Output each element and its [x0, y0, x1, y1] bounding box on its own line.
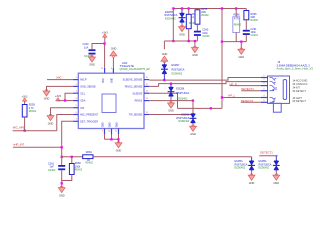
svg-text:+3V3: +3V3 — [22, 95, 29, 98]
svg-text:GND: GND — [190, 133, 196, 136]
svg-text:5# DETECT: 5# DETECT — [293, 90, 307, 93]
IC left pin stub INT — [73, 107, 78, 109]
svg-text:R0402: R0402 — [75, 169, 83, 172]
wire detect long — [93, 156, 252, 158]
wire C281 to gnd — [61, 170, 63, 184]
svg-text:GND: GND — [249, 182, 255, 185]
connector contact 3 — [270, 86, 277, 91]
ground under C281 — [61, 183, 63, 187]
IC bottom pin stub 9 — [104, 129, 106, 135]
capacitor C281 — [58, 165, 65, 167]
connector contact 2 — [270, 82, 276, 85]
junction V1 rail1 — [221, 7, 223, 9]
svg-text:ESD54: ESD54 — [259, 160, 268, 163]
IC right pin stub RING2 — [144, 100, 149, 102]
junction nHP_INT/DET — [61, 146, 63, 148]
svg-text:SLEEVE: SLEEVE — [133, 92, 143, 95]
svg-text:ESD56: ESD56 — [176, 88, 185, 91]
svg-text:C0201: C0201 — [202, 35, 210, 38]
svg-text:R259: R259 — [29, 104, 36, 107]
svg-text:GND: GND — [111, 47, 117, 50]
wire R255 top — [196, 9, 198, 10]
wire DETECT1 stub — [241, 90, 260, 92]
svg-text:RS6TLBCA: RS6TLBCA — [259, 163, 272, 166]
svg-text:R255: R255 — [201, 8, 208, 11]
svg-text:ESD58: ESD58 — [181, 114, 190, 117]
svg-text:RS6TLBCA: RS6TLBCA — [165, 14, 178, 17]
ground under rail2 — [194, 41, 196, 48]
wire bottom GND tie — [105, 139, 119, 143]
wire INT to ground — [51, 108, 74, 116]
capacitor C260 — [194, 31, 201, 33]
svg-text:SLEEVE_SENSE: SLEEVE_SENSE — [123, 79, 143, 82]
resistor R281 — [83, 155, 93, 159]
resistor R282 stub — [71, 157, 73, 164]
svg-text:GND: GND — [238, 56, 244, 59]
svg-text:MIC_PRESENT: MIC_PRESENT — [80, 114, 98, 117]
wire ESD57 to row — [163, 74, 165, 81]
svg-text:2# GND/ACC: 2# GND/ACC — [293, 83, 308, 86]
ground under ESD58 — [192, 124, 194, 127]
junction R267 top — [188, 7, 190, 9]
resistor R296 — [244, 11, 249, 20]
wire R255 to C260 — [196, 24, 198, 31]
svg-text:ESD0402: ESD0402 — [259, 167, 270, 170]
svg-text:DET_TRIGGER: DET_TRIGGER — [80, 120, 98, 123]
svg-text:GND: GND — [103, 122, 105, 127]
svg-text:R298: R298 — [234, 13, 241, 16]
svg-text:VDD: VDD — [103, 78, 105, 83]
IC left pin stub SDA — [73, 100, 78, 102]
GND symbol above IC GND pin — [110, 51, 117, 56]
+3V3 power symbol at R259 — [23, 98, 27, 101]
svg-text:20R: 20R — [201, 11, 206, 14]
wire detect row — [62, 156, 83, 158]
wire R267 top — [188, 9, 190, 15]
wire +3V3 to VDD pin — [104, 37, 106, 68]
svg-text:C260: C260 — [202, 29, 209, 32]
capacitor C281 stub — [61, 157, 63, 165]
connector pin stub 3# INT — [261, 85, 268, 87]
svg-text:RS6TLBCA: RS6TLBCA — [172, 68, 185, 71]
connector contact 6 — [270, 101, 275, 103]
wire to C240 — [92, 44, 105, 50]
wire rail3 — [222, 41, 246, 43]
wire RING2 row — [149, 100, 193, 102]
ESD diode ESD54 — [274, 161, 280, 165]
wire DETECT2 stub — [241, 101, 261, 103]
svg-text:MICP: MICP — [80, 79, 87, 82]
wire DET_TRIGGER — [62, 121, 73, 157]
junction SDA/+3V3 — [64, 99, 66, 101]
ESD diode ESD55t — [179, 13, 185, 17]
IC left pin stub GND_SENSE — [73, 85, 78, 87]
junction at bottom tie 2 — [117, 138, 119, 140]
wire R298 bottom — [235, 33, 237, 42]
svg-text:GND: GND — [89, 64, 95, 67]
svg-text:RS6TLBCA: RS6TLBCA — [176, 117, 189, 120]
connector contact 4 — [270, 89, 275, 91]
svg-text:C0201: C0201 — [251, 34, 259, 37]
wire DETECT1 to ESD54 — [275, 156, 277, 161]
wire HP_R jog — [159, 82, 261, 87]
wire detect to ESD53 — [251, 157, 253, 161]
connector pin stub 2# GND/ACC — [261, 81, 268, 83]
svg-text:R296: R296 — [251, 13, 258, 16]
wire +3V3 to SDA junction — [58, 100, 65, 102]
svg-text:ESD0402: ESD0402 — [235, 167, 246, 170]
junction at bottom tie 1 — [110, 138, 112, 140]
wire rail1 left drop — [172, 9, 174, 42]
ground under ESD53 — [251, 171, 253, 176]
junction gnd stem rail3 — [240, 41, 242, 43]
svg-text:ESD53: ESD53 — [235, 160, 244, 163]
svg-text:1uF: 1uF — [84, 46, 89, 49]
IC left pin stub DET_TRIGGER — [73, 120, 78, 122]
junction H1 — [210, 107, 212, 109]
IC left pin stub SCL — [73, 92, 78, 94]
svg-text:20R: 20R — [251, 16, 256, 19]
wire R296 to C291 — [245, 20, 247, 30]
svg-text:GND: GND — [273, 182, 279, 185]
svg-text:C281: C281 — [48, 162, 55, 165]
svg-text:R0402: R0402 — [234, 23, 242, 26]
ground under rail3 — [240, 42, 242, 50]
svg-text:1uF: 1uF — [50, 166, 55, 169]
wire R298 top — [235, 9, 237, 17]
svg-text:RS6TLBCA: RS6TLBCA — [176, 92, 189, 95]
svg-text:GND: GND — [59, 194, 65, 197]
svg-text:100k: 100k — [75, 165, 81, 168]
net label HP_R stub wire — [230, 85, 261, 87]
IC right pin stub RING2_SENSE — [144, 85, 149, 87]
wire MIC_HPB — [13, 130, 57, 132]
wire RING2_SENSE row — [149, 85, 158, 87]
connector J5 body — [268, 76, 290, 103]
connector pin stub 5# DETECT — [261, 90, 268, 92]
wire R259 to MIC_HPB — [24, 117, 26, 131]
junction rail2 left — [172, 40, 174, 42]
svg-text:ESD57: ESD57 — [172, 64, 181, 67]
wire rail1 to ESD55t — [181, 9, 183, 14]
wire R282 to gnd join — [62, 175, 72, 181]
ESD diode ESD57 — [162, 65, 168, 69]
connector pin stub 4# LEFT — [261, 97, 268, 99]
svg-text:R0402: R0402 — [29, 110, 37, 113]
wire GND symbol to GND pin — [112, 57, 114, 68]
ground on GND_SENSE — [43, 91, 50, 96]
svg-text:4.7k: 4.7k — [29, 107, 34, 110]
IC left pin stub MICP — [73, 79, 78, 81]
junction V1 rail3 — [221, 41, 223, 43]
svg-text:+3V3: +3V3 — [55, 95, 62, 98]
svg-text:GND_SENSE: GND_SENSE — [80, 85, 96, 88]
ground under ESD55t — [181, 23, 183, 27]
capacitor C291 — [243, 30, 250, 32]
capacitor C240 — [89, 49, 96, 51]
svg-text:C0402: C0402 — [48, 169, 56, 172]
svg-text:ESD0402: ESD0402 — [165, 17, 176, 20]
svg-text:4.7k: 4.7k — [234, 18, 239, 21]
wire V1 vertical — [221, 9, 223, 109]
junction R267 bottom — [188, 40, 190, 42]
svg-text:GND: GND — [162, 53, 168, 56]
wire MICP — [47, 79, 73, 81]
IC U40 body — [78, 73, 144, 128]
wire rail1 to R296 — [245, 9, 247, 11]
svg-text:+3V3: +3V3 — [102, 31, 109, 34]
junction C281/R282 gnd — [61, 182, 63, 184]
svg-text:GND: GND — [112, 78, 114, 83]
wire DETECT1 bottom stub — [259, 155, 278, 157]
svg-text:6# DETECT: 6# DETECT — [293, 100, 307, 103]
resistor R267 — [186, 14, 191, 28]
svg-text:GND: GND — [116, 149, 122, 152]
wire rail2 to GND sym — [163, 41, 165, 49]
IC left pin stub MIC_PRESENT — [73, 114, 78, 116]
connector J5 mount tab — [273, 103, 281, 112]
svg-text:RING2_SENSE: RING2_SENSE — [125, 85, 143, 88]
ESD diode ESD56 — [168, 87, 174, 91]
wire C260 bottom — [196, 36, 198, 42]
svg-text:GND: GND — [117, 122, 119, 127]
wire GND_SENSE — [47, 86, 74, 91]
junction V1 HP_L — [221, 96, 223, 98]
svg-text:GND: GND — [179, 33, 185, 36]
IC right pin stub SLEEVE_SENSE — [144, 79, 149, 81]
junction ESD55t — [181, 7, 183, 9]
svg-text:R0402: R0402 — [201, 14, 209, 17]
wire MIC_PRESENT — [57, 115, 73, 131]
resistor R282 — [69, 164, 74, 175]
wire SDA — [65, 100, 73, 102]
wire R267 bottom — [188, 29, 190, 41]
connector contact 1 — [270, 78, 277, 81]
svg-text:RING2: RING2 — [135, 100, 143, 103]
svg-text:R282: R282 — [75, 162, 82, 165]
svg-text:C240: C240 — [83, 43, 90, 46]
wire SLEEVE row — [149, 93, 177, 108]
wire C291 bottom — [245, 35, 247, 42]
ESD diode ESD58 — [190, 114, 196, 118]
junction rail2 gnd — [194, 40, 196, 42]
svg-text:ESD0402: ESD0402 — [179, 120, 190, 123]
junction RING2/ESD58 — [192, 99, 194, 101]
IC right pin stub SLEEVE — [144, 92, 149, 94]
wire row to ESD56 — [170, 84, 172, 88]
junction +3V3/C240 — [103, 42, 105, 44]
wire GND sym to ESD57 — [163, 62, 165, 65]
connector pin stub 6# DETECT — [261, 101, 268, 103]
junction ESD55/row — [163, 79, 165, 81]
junction R298 top — [235, 7, 237, 9]
IC top pin stub VDD — [104, 68, 106, 73]
wire rail2 — [164, 40, 197, 42]
ground on INT row — [47, 116, 54, 121]
wire SCL — [65, 93, 73, 100]
connector contact 5 — [270, 98, 276, 101]
junction DET/C281 — [61, 156, 63, 158]
IC U40 thermal pad — [102, 94, 116, 113]
wire TIP_SENSE row — [149, 114, 193, 116]
svg-text:3# INT: 3# INT — [293, 86, 301, 89]
wire H1 — [178, 107, 223, 109]
svg-text:GND: GND — [192, 54, 198, 57]
wire RING2 down to ESD58 — [192, 101, 194, 114]
svg-text:ESD55: ESD55 — [165, 11, 174, 14]
IC bottom pin wire 10 — [111, 134, 113, 139]
ground under C240 — [91, 54, 93, 57]
svg-text:R281: R281 — [86, 151, 93, 154]
svg-text:SCL: SCL — [80, 92, 85, 95]
svg-text:SDA: SDA — [80, 100, 85, 103]
junction ESD56 row — [170, 83, 172, 85]
IC bottom pin stub 10 — [111, 129, 113, 135]
IC top pin stub GND — [112, 68, 114, 73]
IC right pin stub TIP_SENSE — [144, 114, 149, 116]
svg-text:100n: 100n — [202, 32, 208, 35]
svg-text:4# LEFT: 4# LEFT — [293, 97, 303, 100]
IC bottom pin stub 11 — [118, 129, 120, 135]
svg-text:100n: 100n — [251, 31, 257, 34]
wire rail1 — [173, 8, 246, 10]
svg-text:INT: INT — [80, 107, 85, 110]
junction TIP_SENSE/ESD58 — [192, 113, 194, 115]
svg-text:GND: GND — [110, 122, 112, 127]
resistor R259 — [22, 105, 27, 118]
wire +3V3 to R259 — [24, 101, 26, 104]
junction R259/MIC_HPB — [24, 130, 26, 132]
wire HP_L from V1 — [222, 97, 261, 99]
svg-text:TIP_SENSE: TIP_SENSE — [128, 114, 142, 117]
svg-text:ESD0402: ESD0402 — [177, 97, 188, 100]
svg-text:ESD0402: ESD0402 — [172, 73, 183, 76]
connector J5 sleeve bar — [283, 80, 286, 100]
svg-text:R0402: R0402 — [86, 162, 94, 165]
junction R282 top — [71, 156, 73, 158]
svg-text:GND: GND — [168, 110, 174, 113]
connector pin stub 1# ACC/GND — [261, 77, 268, 79]
+3V3 power symbol top — [103, 34, 107, 37]
wire nHP_INT — [13, 146, 62, 148]
GND symbol ESD57 — [161, 56, 168, 61]
junction rail1 left — [172, 7, 174, 9]
wire SLEEVE_SENSE row — [149, 78, 260, 81]
svg-text:1# ACC/GND: 1# ACC/GND — [293, 80, 308, 83]
svg-text:TS3A227E: TS3A227E — [120, 64, 135, 68]
ground under IC — [115, 143, 122, 148]
svg-text:QFN16_16L4X4X0P75_EP: QFN16_16L4X4X0P75_EP — [120, 68, 151, 71]
ESD diode ESD53 — [249, 161, 255, 165]
IC bottom pin wire 9 — [104, 134, 106, 139]
svg-text:RS6TLBCA: RS6TLBCA — [235, 163, 248, 166]
ground under ESD54 — [275, 171, 277, 176]
resistor R298 DNI body — [233, 17, 240, 33]
ground under ESD56 — [170, 96, 172, 103]
svg-text:GND: GND — [48, 122, 54, 125]
resistor R255 — [195, 10, 200, 24]
+3V3 power symbol at SDA — [56, 98, 60, 101]
svg-text:GND: GND — [44, 98, 50, 101]
svg-text:C291: C291 — [251, 28, 258, 31]
IC bottom pin wire 11 — [118, 134, 120, 139]
svg-text:R0402: R0402 — [251, 19, 259, 22]
